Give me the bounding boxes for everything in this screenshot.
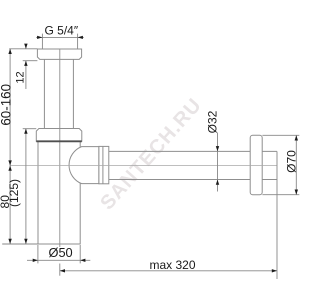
max320 arrows <box>60 269 65 272</box>
cup top nut <box>36 129 82 142</box>
Ø70 dim line <box>295 135 297 194</box>
cup nut dark bottom line <box>36 140 82 142</box>
pipe axis center line <box>10 165 277 167</box>
12 arrows <box>24 44 27 49</box>
svg-text:12: 12 <box>15 71 27 83</box>
trap cup body <box>38 141 80 244</box>
G5/4 arrows <box>37 36 42 39</box>
svg-text:60-160: 60-160 <box>0 84 13 126</box>
ext line flange top <box>9 48 37 50</box>
12 dim line <box>25 44 27 89</box>
svg-text:Ø32: Ø32 <box>205 110 219 133</box>
dimension lines and extension lines <box>2 34 299 279</box>
max320 dim line <box>60 270 277 272</box>
svg-text:Ø50: Ø50 <box>48 245 72 260</box>
wall rosette flange <box>250 135 262 195</box>
(125) arrows <box>24 129 27 134</box>
Ø32 dim line <box>217 133 219 192</box>
Ø32 arrows <box>216 146 219 151</box>
ext line cup bottom left <box>2 243 38 245</box>
80 dim line <box>9 166 11 244</box>
inlet tube <box>44 59 73 128</box>
outlet ring nut <box>99 146 109 183</box>
svg-text:Ø70: Ø70 <box>285 150 299 173</box>
horizontal outlet pipe <box>109 151 277 179</box>
G5/4 extension lines <box>42 34 77 49</box>
inlet flange nut G5/4 <box>37 49 81 59</box>
svg-text:G 5/4″: G 5/4″ <box>44 24 78 38</box>
svg-text:max 320: max 320 <box>149 258 195 272</box>
vertical center line <box>59 49 61 247</box>
svg-text:(125): (125) <box>7 179 21 207</box>
Ø50 dim line <box>27 259 90 261</box>
60-160 dim line <box>9 49 11 166</box>
ext line nut top <box>23 128 37 130</box>
(125) dim line <box>25 129 27 244</box>
Ø50 extension lines <box>38 245 80 263</box>
max320 left ext <box>59 264 61 276</box>
max320 right ext <box>276 151 278 279</box>
Ø70 extension lines <box>262 135 299 194</box>
Ø50 arrows <box>33 259 38 262</box>
dimension texts <box>0 24 298 272</box>
60-160 arrows <box>8 49 11 54</box>
elbow bell <box>69 147 99 184</box>
ext line flange bottom <box>23 60 38 62</box>
G5/4 dim line <box>36 36 84 38</box>
watermark SANTECH.RU <box>96 94 206 214</box>
80 arrows <box>8 166 11 171</box>
Ø70 arrows <box>295 135 298 140</box>
arrowheads <box>8 36 298 273</box>
